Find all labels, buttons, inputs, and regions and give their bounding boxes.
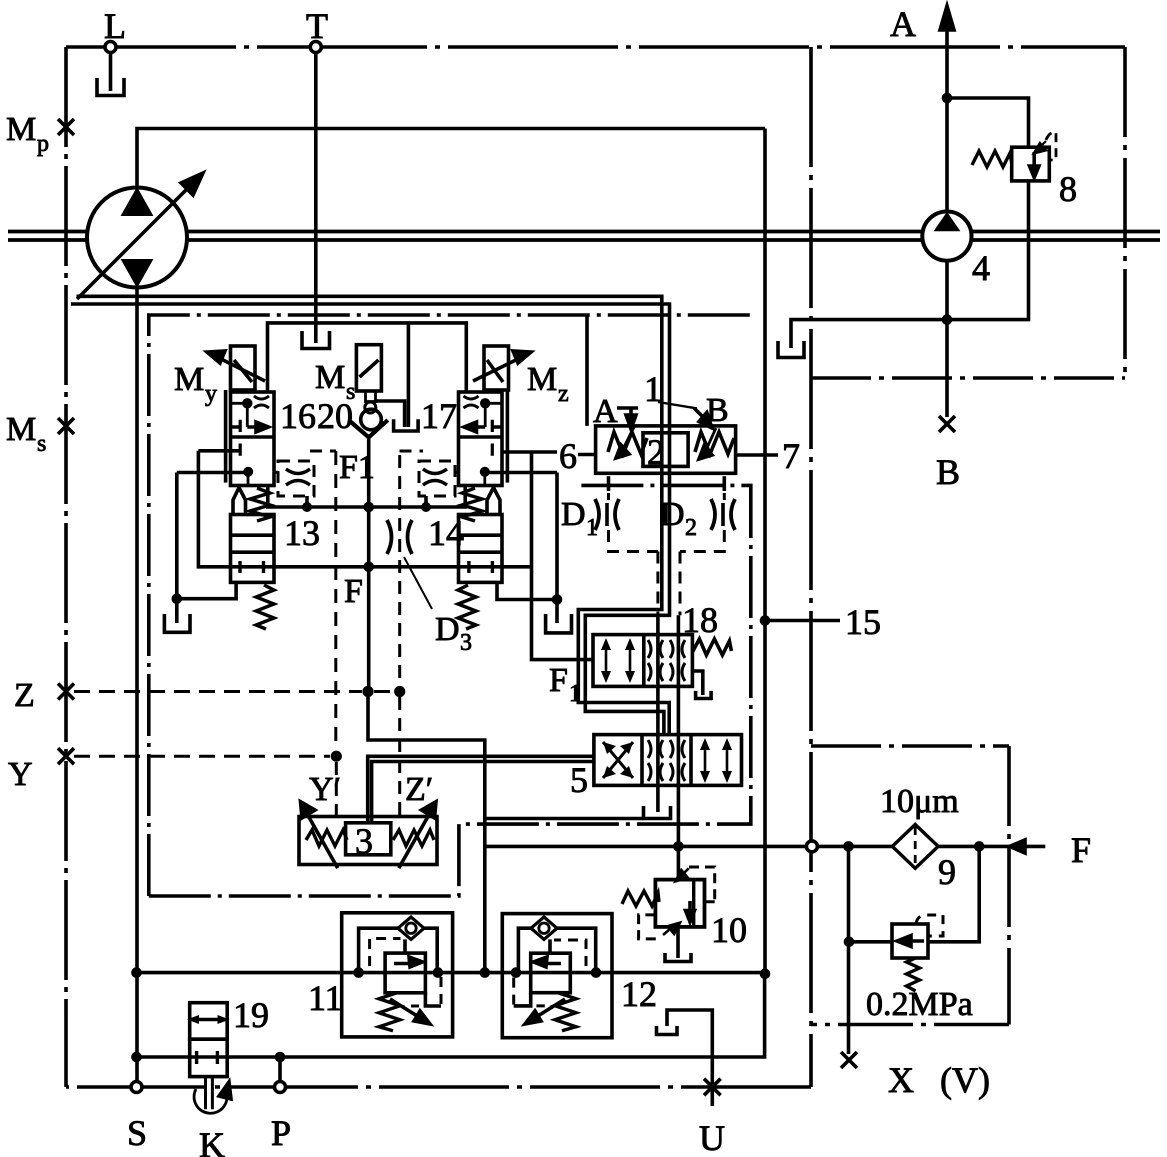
label 1 leader [644, 369, 697, 409]
junction F valve10 [673, 841, 684, 852]
wire pump case drain down [135, 286, 139, 1084]
port Z [14, 677, 74, 714]
svg-text:S: S [127, 1113, 147, 1153]
wire motor drain [791, 320, 947, 348]
solenoid My proportional [174, 346, 265, 407]
svg-text:A: A [890, 4, 916, 44]
block boundary top [66, 45, 1125, 49]
valve 14 main body [459, 515, 503, 583]
label 7 leader [736, 436, 800, 476]
junction drain right [552, 594, 563, 605]
svg-text:B: B [936, 452, 960, 492]
tank under port T [302, 331, 330, 349]
svg-text:z: z [558, 381, 569, 407]
pilot orifice box valve17 [400, 451, 459, 496]
pump control line upper [77, 296, 670, 734]
valve 13 bottom spring [256, 585, 274, 629]
valve 14 poppet arrow [487, 488, 500, 516]
wire F rail and line [198, 451, 531, 567]
valve 3 arrow left [301, 802, 338, 868]
wire D2 branch down [677, 615, 681, 846]
tank under port L [97, 53, 124, 96]
wire rail to valve13 [198, 449, 241, 453]
relief valve 8 [972, 132, 1077, 209]
spring right valve block [695, 432, 734, 454]
valve 5 crossed arrows [603, 742, 633, 778]
valve 14 bottom spring [458, 585, 476, 629]
valve 12 check branch [518, 928, 595, 972]
wire valve14 tank stub [497, 582, 557, 599]
block boundary right [809, 47, 813, 1087]
tank valve14 drain [546, 614, 572, 633]
junction valve16 drain [243, 467, 253, 477]
svg-text:13: 13 [284, 513, 320, 553]
junction F1 [302, 502, 431, 513]
valve 5 arrows [700, 738, 732, 783]
svg-text:M: M [6, 411, 36, 448]
tank valve 10 [665, 953, 691, 962]
svg-text:M: M [527, 361, 557, 398]
junction check valve [844, 937, 855, 948]
svg-text:8: 8 [1059, 169, 1077, 209]
port X cross [841, 1052, 990, 1100]
valve 16 side rail [224, 390, 228, 483]
valve 13 main body [231, 515, 275, 583]
valve 11 check branch [359, 928, 438, 972]
svg-text:Y: Y [8, 756, 33, 793]
pilot line D1 [607, 476, 611, 491]
pilot Z dashed [74, 690, 394, 693]
wire solenoid drain [376, 323, 409, 427]
wire pump outlet to top [137, 129, 765, 192]
svg-text:F: F [1071, 830, 1091, 870]
valve 11 main stage [385, 953, 425, 993]
wire X branch [847, 846, 851, 1054]
tank U drain [657, 1026, 678, 1035]
valve 12 stub [514, 993, 531, 1006]
pilot line D2 [722, 476, 726, 491]
valve 3 spring right [393, 830, 434, 846]
wire F line left [485, 845, 806, 849]
wire valve14 right rail to valve18 port [532, 451, 594, 660]
svg-text:6: 6 [559, 436, 577, 476]
port S [127, 1082, 147, 1154]
wire motor inlet [945, 98, 949, 212]
drain to U port [667, 1010, 712, 1106]
valve 12 pilot to main [548, 939, 552, 953]
filter 9 [880, 783, 959, 892]
valve 12 spring [525, 993, 576, 1031]
wire pressure line x765 [763, 129, 767, 974]
wire check valve to filter out [928, 846, 979, 941]
valve 13 spring upper [250, 488, 270, 521]
svg-text:19: 19 [233, 995, 269, 1035]
motor block boundary bottom [811, 376, 1125, 380]
block boundary bottom [66, 1085, 811, 1089]
valve 13 poppet arrow [233, 488, 246, 516]
motor 4 [922, 212, 990, 289]
svg-text:K: K [199, 1125, 225, 1157]
valve 17 internals [464, 396, 503, 486]
svg-text:D: D [561, 496, 586, 533]
port A arrow [890, 4, 954, 98]
svg-text:U: U [699, 1118, 725, 1157]
svg-text:s: s [346, 379, 355, 405]
pilot Y prime down [335, 762, 338, 817]
wire valve13 tank stub [177, 582, 236, 598]
pump P1 variable displacement [87, 188, 187, 288]
valve 11 pilot to main [403, 939, 407, 953]
valve 16 internals [231, 396, 270, 486]
junction dots return line [131, 967, 601, 978]
valve 5 [594, 735, 742, 786]
valve 12 main stage [531, 953, 571, 993]
valve 18 orifices [648, 640, 685, 681]
svg-text:4: 4 [972, 248, 990, 288]
orifice arcs valve17 box [423, 469, 447, 485]
wire P port riser [278, 1057, 282, 1082]
svg-text:1: 1 [586, 515, 598, 541]
svg-text:7: 7 [782, 436, 800, 476]
F inlet arrow [1010, 830, 1092, 870]
relief valve 8 loop [947, 98, 1029, 320]
spring left valve block [608, 432, 647, 454]
wire to check valve [849, 940, 892, 944]
valve 3 regulator [299, 817, 437, 865]
port L [104, 6, 126, 53]
svg-text:p: p [37, 131, 49, 157]
valve 16 pilot stage [231, 392, 275, 486]
svg-text:T: T [306, 6, 328, 46]
valve 10 relief [622, 867, 747, 950]
arrow B into block [694, 392, 729, 459]
pump control line lower [71, 304, 670, 735]
check valve 11 [398, 917, 424, 939]
svg-text:Z: Z [14, 677, 35, 714]
svg-text:(V): (V) [940, 1060, 990, 1100]
wire valve3 center to valve5 [368, 756, 594, 823]
valve 11 pilot dashes [370, 939, 441, 1007]
svg-text:y: y [205, 381, 217, 407]
svg-text:10μm: 10μm [880, 783, 959, 820]
valve 3 arrow right [399, 802, 436, 868]
port Ms [6, 411, 74, 457]
shuttle block valves 1 2 [596, 426, 736, 473]
svg-text:M: M [6, 111, 36, 148]
port P [271, 1082, 291, 1154]
svg-text:D: D [660, 496, 685, 533]
tank valve13 drain [164, 614, 190, 632]
valve 18 [593, 635, 692, 687]
wire drain valve17 [485, 471, 557, 475]
port B cross [936, 416, 960, 492]
filter block boundary right [1007, 746, 1011, 1025]
wire drain rail left [175, 473, 179, 624]
valve 11 stub [425, 993, 441, 1006]
junction Z b [394, 686, 405, 697]
svg-text:X: X [888, 1060, 914, 1100]
wire poppet to F1 to Z [367, 437, 371, 691]
junction Z a [362, 686, 373, 697]
svg-text:16: 16 [280, 396, 316, 436]
valve 5 orifices [648, 740, 685, 781]
junction filter right [974, 841, 985, 852]
valve 12 overall box [502, 914, 612, 1038]
motor block boundary right [1123, 47, 1127, 378]
wire drain to tank y818 [485, 817, 644, 821]
wire return line y972 [137, 971, 766, 975]
pilot poppet 20 [349, 391, 388, 437]
svg-text:10: 10 [711, 910, 747, 950]
svg-text:12: 12 [621, 974, 657, 1014]
valve 18 drain tank [691, 671, 711, 699]
filter block boundary bottom [811, 1023, 1009, 1027]
junction valve17 drain [480, 467, 490, 477]
wire T-return manifold [268, 323, 467, 392]
wire drain rail right [555, 473, 559, 624]
tank motor drain [778, 341, 804, 358]
check valve 12 [531, 917, 557, 939]
svg-text:F: F [344, 573, 363, 610]
valve 3 spring left [306, 830, 347, 846]
wire motor outlet [945, 261, 949, 417]
svg-text:P: P [271, 1113, 291, 1153]
wire F line to valve 10 [677, 846, 681, 879]
svg-text:M: M [174, 361, 204, 398]
valve 17 side rail [506, 390, 510, 483]
valve 14 body ticks [469, 561, 493, 573]
label 6 with leaders [502, 436, 596, 476]
rotation arrow K [194, 1082, 231, 1157]
wire A supply [585, 315, 589, 426]
valve 11 spring [379, 993, 430, 1031]
junction motor top [942, 93, 953, 104]
svg-text:M: M [315, 359, 345, 396]
wire F1 [268, 486, 465, 508]
svg-text:A: A [593, 393, 618, 430]
valve 12 pilot dashes [514, 940, 586, 1006]
junction F [363, 562, 374, 573]
orifice arcs valve13 box [286, 469, 310, 485]
junction drain left [172, 593, 183, 604]
wire D1 branch down [656, 615, 660, 812]
svg-text:15: 15 [845, 602, 881, 642]
pump variable arrow [77, 173, 203, 299]
orifice D2 [660, 496, 735, 541]
svg-text:2: 2 [685, 515, 697, 541]
wire F filter line [817, 845, 1009, 849]
block boundary left [64, 47, 68, 1087]
wire valve 10 drain [676, 925, 680, 958]
valve 18 arrows [601, 638, 635, 683]
port U cross [699, 1079, 725, 1157]
pilot valve13 to Y dashed [334, 451, 337, 750]
pilot orifice box valve13 [274, 451, 336, 496]
svg-text:1: 1 [569, 681, 581, 707]
pilot Y dashed [74, 755, 330, 758]
svg-text:18: 18 [682, 600, 718, 640]
valve group boundary chain box [149, 315, 751, 896]
svg-text:2: 2 [647, 432, 665, 472]
valve 18 spring [692, 639, 731, 655]
valve 17 pilot stage [459, 392, 503, 486]
check valve 02MPa [866, 915, 973, 1023]
svg-text:Z′: Z′ [405, 771, 433, 808]
pilot Z prime dashed [398, 455, 401, 817]
junction 765/973 [760, 969, 771, 980]
wire suction line y1057 [137, 974, 765, 1057]
svg-text:3: 3 [460, 630, 472, 656]
valve 14 spring upper [462, 488, 482, 521]
svg-text:14: 14 [428, 513, 464, 553]
orifice D3 [387, 520, 472, 656]
junction Y [331, 751, 342, 762]
drive shaft double line [8, 232, 1160, 241]
port F circle [806, 841, 817, 852]
wire T line down [314, 53, 318, 344]
svg-text:L: L [104, 6, 126, 46]
filter block boundary top [811, 744, 1009, 748]
svg-text:9: 9 [938, 852, 956, 892]
svg-text:0.2MPa: 0.2MPa [866, 986, 973, 1023]
solenoid Mz proportional [473, 346, 569, 407]
labels 16 20 [280, 396, 353, 436]
solenoid Ms [315, 345, 381, 405]
wire Z junction to drain [368, 692, 485, 973]
port T [306, 6, 328, 53]
svg-text:17: 17 [421, 396, 457, 436]
wire drain valve16 [177, 471, 248, 475]
tank under valve 5 [644, 806, 671, 819]
port Mp [6, 111, 74, 157]
junction motor bottom [942, 314, 953, 325]
valve 13 body ticks [240, 561, 264, 573]
hand pump 19 [187, 995, 269, 1109]
svg-text:5: 5 [570, 760, 588, 800]
label 15 leader [765, 602, 881, 642]
valve 11 overall box [342, 913, 453, 1037]
junction filter left [843, 841, 854, 852]
arrow A into block [593, 393, 638, 458]
tank solenoid drain [394, 419, 419, 431]
svg-text:s: s [37, 431, 46, 457]
port Y [8, 748, 74, 793]
svg-text:3: 3 [355, 821, 373, 861]
junction dots suction line [131, 1052, 285, 1063]
svg-text:F: F [549, 662, 568, 699]
orifice D1 [561, 496, 619, 541]
svg-text:D: D [435, 611, 460, 648]
svg-text:11: 11 [308, 978, 343, 1018]
junction 765/620 [760, 615, 771, 626]
label F1 valve18 [549, 662, 581, 707]
svg-text:Y′: Y′ [309, 771, 341, 808]
